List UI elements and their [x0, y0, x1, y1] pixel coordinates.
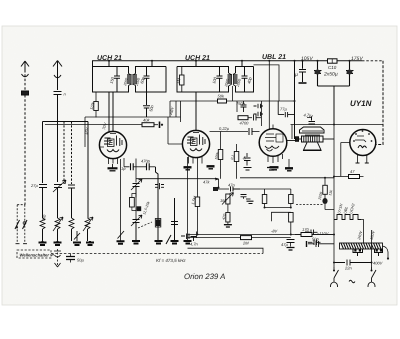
ground osc [132, 241, 140, 244]
ground g4 [86, 241, 94, 245]
svg-text:50k: 50k [218, 94, 225, 99]
resistor 220k [289, 213, 294, 235]
svg-text:22n: 22n [344, 266, 352, 271]
wire y101 extension [237, 100, 295, 102]
svg-text:UBL 21: UBL 21 [262, 54, 286, 61]
coil L3 [69, 218, 74, 241]
audio feed wire [136, 178, 219, 188]
dashed coupling [138, 222, 152, 228]
svg-text:Kf = 473,5 kHz: Kf = 473,5 kHz [156, 258, 186, 263]
svg-text:UCH 21: UCH 21 [97, 55, 122, 62]
capacitor 50u bottom left [66, 254, 75, 263]
resistor 1,5M vertical [195, 179, 200, 234]
capacitor 4,7n spk [307, 116, 315, 125]
resistor 47k [213, 187, 229, 191]
mains switch b [372, 267, 377, 278]
tube V2 UCH21 [182, 92, 214, 170]
svg-text:Wellenschalter ↗: Wellenschalter ↗ [20, 252, 55, 257]
resistor 2M [241, 236, 252, 240]
capacitor 150 [114, 67, 120, 93]
voltage selector strip [340, 243, 383, 256]
wire x170 [169, 101, 171, 117]
resistor 50k line [170, 100, 237, 102]
screen box section 2 right [236, 67, 254, 93]
wire audio long line [240, 177, 334, 179]
resistor C10 [328, 59, 338, 63]
capacitor c3 [68, 185, 75, 218]
capacitor 50n [305, 230, 318, 236]
screen box section 2 left [177, 67, 229, 93]
svg-text:4,7µ: 4,7µ [304, 113, 313, 118]
wire vertical x64 dashed [63, 122, 65, 185]
wire x175 [174, 198, 176, 241]
wire v-x113 top [112, 92, 114, 132]
wire x187 down [187, 157, 189, 241]
svg-text:-8V: -8V [271, 229, 278, 234]
wire vertical x88 [87, 122, 89, 219]
wire 4700 row [236, 101, 238, 118]
resistor osc [130, 191, 142, 220]
ground g5 [155, 241, 163, 244]
svg-text:Orion 239 A: Orion 239 A [184, 272, 225, 281]
capacitor 4,7n [191, 232, 197, 242]
dashed control box [17, 250, 51, 258]
wire 400V column [371, 230, 373, 267]
volume potentiometer [222, 193, 234, 228]
resistor 4700 [238, 115, 261, 121]
grid wire AVC [85, 117, 181, 147]
ground g2 [54, 241, 62, 245]
wire vertical x43 [42, 122, 44, 184]
svg-text:750p: 750p [236, 101, 246, 106]
resistor 100k below tube2 [218, 132, 223, 179]
trimmer capacitor var1 [53, 180, 66, 218]
svg-text:40k: 40k [143, 118, 150, 123]
power rail vertical x294 [294, 61, 296, 139]
capacitor 60p [144, 67, 150, 93]
capacitor 0,22u [249, 128, 252, 135]
resistor 1M vertical [180, 67, 185, 93]
resistor 1M vertical b [289, 189, 294, 208]
ground g3 [73, 243, 81, 246]
svg-text:~110V: ~110V [317, 231, 329, 236]
capacitor 50p h [181, 234, 189, 240]
pushbutton arrow [54, 249, 61, 267]
wire vertical x57.5 [57, 122, 59, 183]
tube V1 UCH21 [99, 92, 126, 171]
svg-text:UCH 21: UCH 21 [185, 55, 210, 62]
speaker cone [303, 143, 322, 151]
svg-text:50µ: 50µ [77, 258, 84, 263]
capacitor 450p pair [241, 195, 254, 204]
wire bias row [265, 207, 291, 209]
tube V4 UY1N [350, 130, 376, 164]
wire tube3 anode right [287, 140, 297, 142]
wire tube2 grid [168, 117, 182, 144]
switch s2 [166, 235, 171, 244]
svg-text:47n: 47n [228, 183, 235, 188]
capacitor 50n screen [143, 92, 150, 117]
screen box section 1 left [93, 67, 129, 93]
svg-text:UY1N: UY1N [350, 99, 372, 108]
ground g8 [267, 168, 276, 171]
mains switch a [334, 267, 339, 278]
speaker output line [60, 124, 290, 126]
svg-text:4700: 4700 [240, 121, 250, 126]
svg-text:47k: 47k [203, 180, 210, 185]
wire left bus [43, 121, 89, 123]
svg-text:C10: C10 [328, 65, 337, 70]
coil L1 [40, 218, 45, 241]
capacitor 47u bias [287, 240, 295, 251]
electrolytic 2x50u a [314, 61, 322, 86]
svg-text:47: 47 [350, 169, 355, 174]
wire mid column [261, 101, 263, 126]
capacitor 77u [278, 101, 294, 117]
wire filter bottom [318, 86, 350, 125]
wire tube2 det out [196, 164, 198, 180]
svg-text:2M: 2M [242, 241, 249, 246]
capacitor 750p [241, 101, 247, 112]
resistor 170 [295, 233, 334, 237]
resistor pad [156, 220, 161, 227]
svg-text:0,22µ: 0,22µ [219, 126, 230, 131]
svg-text:470p: 470p [141, 159, 151, 164]
capacitor 47n [231, 187, 241, 192]
coil L2 variable [53, 217, 63, 241]
wire heater chain [333, 125, 335, 220]
bus stubs section2 [196, 61, 242, 67]
bus stubs section1 [109, 61, 152, 67]
ground g6 [171, 241, 179, 244]
dashed bottom line [51, 253, 263, 255]
wire right riser [376, 61, 384, 145]
ground g7 [184, 241, 192, 244]
wire to tube3 grid [252, 131, 260, 133]
plug prong b [368, 278, 375, 287]
IF transformer T1 [127, 74, 137, 86]
wire UBL screen feed [254, 65, 280, 101]
svg-text:170: 170 [302, 227, 309, 232]
resistor 40k [142, 122, 160, 129]
svg-text:1M: 1M [220, 198, 226, 203]
svg-text:50p: 50p [312, 237, 319, 242]
resistor 47n vertical [262, 189, 267, 208]
dial circuit outline [188, 248, 264, 253]
top bus wire [93, 61, 363, 67]
wire tube3 anode riser [268, 61, 270, 129]
dashed bias feed [296, 204, 323, 206]
wire x334 down [333, 220, 335, 268]
capacitor 10n b [308, 240, 321, 246]
svg-text:105V: 105V [301, 56, 313, 62]
screen box section 1 right [136, 67, 167, 93]
plug prong a [330, 278, 337, 287]
wire grid line [43, 122, 143, 125]
wire tube3 top [272, 125, 274, 129]
IF transformer T2 [228, 73, 238, 101]
ground g1 [39, 241, 47, 245]
electrolytic 2x50u b [346, 61, 354, 86]
oscillator trimmer 1 [131, 179, 142, 198]
coil L4 variable [83, 217, 93, 241]
capacitor 50p mains [307, 241, 335, 247]
capacitor pad [155, 183, 164, 189]
antenna 1 (dashed) [21, 61, 29, 205]
capacitor c-b2 [244, 153, 252, 170]
capacitor 22n [334, 260, 372, 266]
capacitor 27u [39, 185, 47, 219]
svg-text:4,7n: 4,7n [190, 242, 199, 247]
capacitor pair x258 [254, 104, 264, 117]
band switch [15, 205, 27, 244]
svg-text:µ: µ [295, 72, 298, 78]
wire audio line y190 [240, 188, 291, 190]
resistor 50k [218, 99, 227, 103]
heater resistor zigzag [334, 215, 364, 244]
capacitor input filter [299, 61, 307, 83]
antenna 2 [53, 61, 62, 122]
capacitor 1p / 470p chain [124, 158, 156, 183]
svg-text:77µ: 77µ [280, 107, 287, 112]
capacitor 100p [217, 67, 223, 93]
wire vertical x71.5 dashed [71, 122, 73, 185]
svg-text:1p: 1p [121, 166, 126, 171]
wire selector right [383, 246, 389, 258]
wire bias bus [188, 234, 335, 236]
ac symbol [349, 280, 355, 283]
wire tube4 left [341, 143, 350, 177]
wire bias bus lower [188, 237, 291, 239]
tube V3 UBL21 [259, 129, 293, 171]
wire feedback loop [272, 212, 291, 221]
wire 0,22u line [210, 131, 249, 133]
capacitor 40p [242, 67, 248, 93]
wire output bus [291, 124, 384, 126]
svg-text:47µ: 47µ [281, 242, 288, 247]
resistor 13k cathode [322, 178, 334, 210]
svg-text:2x50µ: 2x50µ [323, 72, 338, 78]
resistor r-b2 [234, 144, 239, 179]
filament switch line [117, 159, 125, 244]
wire spk left riser [291, 125, 293, 140]
resistor 47 [334, 175, 364, 179]
wire x155 [156, 167, 159, 241]
svg-text:400V: 400V [373, 261, 383, 266]
oscillator trimmer 2 [131, 215, 142, 241]
output transformer [296, 127, 335, 142]
capacitor 10n [171, 222, 178, 225]
svg-text:175V: 175V [351, 56, 363, 62]
resistor 1/2k [94, 92, 99, 118]
svg-text:27µ: 27µ [30, 183, 38, 188]
wire AVC drops [176, 101, 181, 122]
